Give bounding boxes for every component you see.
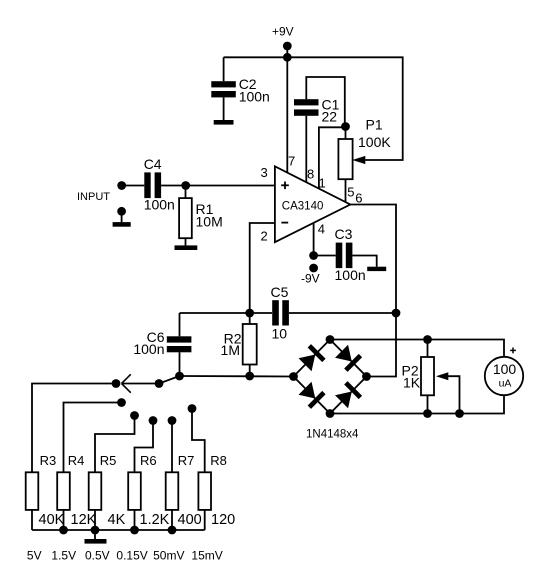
resistor R3 [26, 453, 57, 510]
svg-text:R4: R4 [68, 453, 85, 468]
wire contact to R8 [192, 409, 205, 473]
wire C4 to pin 3 [161, 185, 275, 187]
wire C3 to ground [352, 256, 376, 267]
wire output pin 6 [350, 205, 396, 314]
svg-text:22: 22 [322, 109, 338, 125]
node bridge bottom corner [326, 409, 335, 418]
svg-text:C5: C5 [271, 284, 289, 300]
node input terminal dot [117, 181, 126, 190]
node -9V terminal dot [309, 264, 318, 273]
node P1 top junction [341, 122, 350, 131]
svg-text:uA: uA [499, 377, 512, 389]
svg-text:5: 5 [347, 185, 354, 200]
capacitor C5 [271, 284, 289, 342]
resistor R5 [89, 453, 117, 510]
svg-text:40K: 40K [39, 512, 65, 528]
wire contact to R6 [135, 421, 154, 473]
node +9V terminal dot [283, 42, 292, 51]
svg-text:R6: R6 [140, 453, 157, 468]
wire contact to R5 [95, 416, 135, 473]
node R2 top junction [245, 309, 254, 318]
node contact R4 [117, 398, 126, 407]
wire +9V rail top [224, 57, 403, 160]
svg-text:2: 2 [261, 228, 268, 243]
svg-text:P1: P1 [366, 117, 383, 133]
svg-text:1: 1 [319, 175, 326, 190]
ground under C3 [367, 267, 386, 271]
svg-text:0.5V: 0.5V [85, 549, 110, 563]
svg-text:50mV: 50mV [153, 549, 184, 563]
svg-text:100K: 100K [358, 134, 391, 150]
ground under R1 [175, 245, 198, 250]
wire bridge bottom rail to meter [330, 396, 504, 414]
svg-text:+9V: +9V [272, 25, 294, 39]
svg-text:R5: R5 [100, 453, 117, 468]
svg-text:100n: 100n [133, 341, 164, 357]
wire contact to R7 [171, 421, 173, 473]
svg-text:1K: 1K [403, 375, 421, 391]
svg-text:100n: 100n [144, 197, 175, 213]
node switch pivot dot [155, 379, 164, 388]
node P2 top junction [423, 335, 432, 344]
node bridge top corner [326, 335, 335, 344]
svg-text:1N4148x4: 1N4148x4 [306, 429, 359, 441]
svg-text:C4: C4 [144, 156, 162, 172]
diode D2 top-to-right [334, 344, 362, 372]
wire +9V stub [286, 46, 288, 57]
node P2 bottom junction [423, 409, 432, 418]
svg-text:400: 400 [178, 512, 202, 528]
svg-text:INPUT: INPUT [77, 191, 110, 203]
svg-text:3: 3 [261, 165, 268, 180]
wire input lower stub [121, 211, 123, 222]
wire switch wiper shaft [123, 383, 160, 385]
wire contact to R3 [32, 384, 116, 473]
node R2 bottom junction [245, 372, 254, 381]
svg-text:100n: 100n [335, 267, 366, 283]
node P2 wiper bottom junction [455, 409, 464, 418]
potentiometer P2 [402, 340, 460, 414]
capacitor C3 [335, 226, 366, 283]
switch wiper arrowhead [122, 374, 131, 392]
svg-text:C3: C3 [335, 226, 353, 242]
ground under C2 [214, 120, 234, 125]
wire pin 4 [313, 223, 315, 256]
resistor R6 [128, 453, 156, 510]
node contact R3 [112, 379, 121, 388]
svg-text:15mV: 15mV [191, 549, 222, 563]
wire bottom bus [32, 529, 205, 531]
diode D1 left-to-top [298, 344, 326, 372]
wire C1 top loop [306, 77, 345, 127]
wire input to C4 [122, 185, 145, 187]
wire pin 1 [319, 127, 346, 189]
node bus junction R5 [91, 526, 100, 535]
svg-text:100: 100 [493, 361, 517, 377]
wire pin 7 [286, 57, 288, 173]
svg-text:0.15V: 0.15V [116, 549, 147, 563]
svg-text:4K: 4K [108, 512, 126, 528]
wire bridge top rail to meter [330, 340, 504, 358]
capacitor C1 [294, 97, 340, 125]
svg-text:8: 8 [307, 166, 314, 181]
node contact R6 [149, 416, 158, 425]
node junction after C4 [181, 181, 190, 190]
capacitor C4 [144, 156, 175, 213]
svg-text:10: 10 [272, 326, 288, 342]
resistor R2 [221, 313, 257, 376]
meter M1 100uA [485, 348, 523, 396]
wire pin4 to C3 [314, 255, 336, 257]
node contact R7 [168, 416, 177, 425]
diode bridge edges [294, 340, 367, 414]
node +9V junction [283, 53, 292, 62]
node bus junction R7 [168, 526, 177, 535]
wire output down to bridge right [367, 313, 397, 377]
wire bottom node rail [180, 375, 294, 378]
node bridge left corner [289, 372, 298, 381]
svg-text:1M: 1M [221, 342, 240, 358]
svg-text:R3: R3 [40, 453, 57, 468]
capacitor C6 [133, 313, 191, 376]
svg-text:10M: 10M [196, 213, 223, 229]
wire ground stub [94, 530, 96, 539]
wire feedback rail [180, 312, 273, 314]
svg-text:120: 120 [211, 512, 235, 528]
svg-text:100n: 100n [239, 89, 270, 105]
node contact R5 [130, 411, 139, 420]
potentiometer P1 [338, 117, 391, 203]
resistor R8 [198, 453, 226, 510]
svg-text:4: 4 [318, 222, 325, 237]
svg-text:CA3140: CA3140 [282, 201, 324, 213]
resistor R7 [166, 453, 195, 510]
node input lower terminal dot [117, 207, 126, 216]
diode D3 left-to-bottom [298, 381, 326, 409]
resistor R4 [57, 453, 84, 510]
node output-C5 junction [392, 309, 401, 318]
svg-text:R7: R7 [178, 453, 195, 468]
node bridge right corner [362, 372, 371, 381]
ground under input [113, 222, 131, 227]
svg-text:R8: R8 [210, 453, 227, 468]
node C6 bottom junction [175, 372, 184, 381]
wire pin 8 [305, 116, 307, 183]
wire contact to R4 [64, 403, 122, 473]
node bus junction R4 [59, 526, 68, 535]
diode D4 bottom-to-right [334, 381, 362, 409]
svg-text:12K: 12K [71, 512, 97, 528]
node bus junction R6 [130, 526, 139, 535]
wire pin 2 [250, 223, 275, 313]
svg-text:5V: 5V [27, 549, 42, 563]
op-amp U1 CA3140 [261, 154, 363, 244]
wire switch lever diagonal [159, 376, 180, 384]
ground under bus [85, 539, 107, 544]
svg-text:1.5V: 1.5V [51, 549, 76, 563]
resistor R1 [179, 186, 223, 246]
node pin4 junction [309, 251, 318, 260]
svg-text:7: 7 [288, 154, 295, 169]
svg-text:1.2K: 1.2K [140, 512, 170, 528]
svg-text:-9V: -9V [301, 272, 320, 286]
capacitor C2 [211, 57, 270, 120]
wire resistor bottom leads [31, 510, 33, 530]
svg-text:6: 6 [355, 191, 362, 206]
node contact R8 [188, 404, 197, 413]
